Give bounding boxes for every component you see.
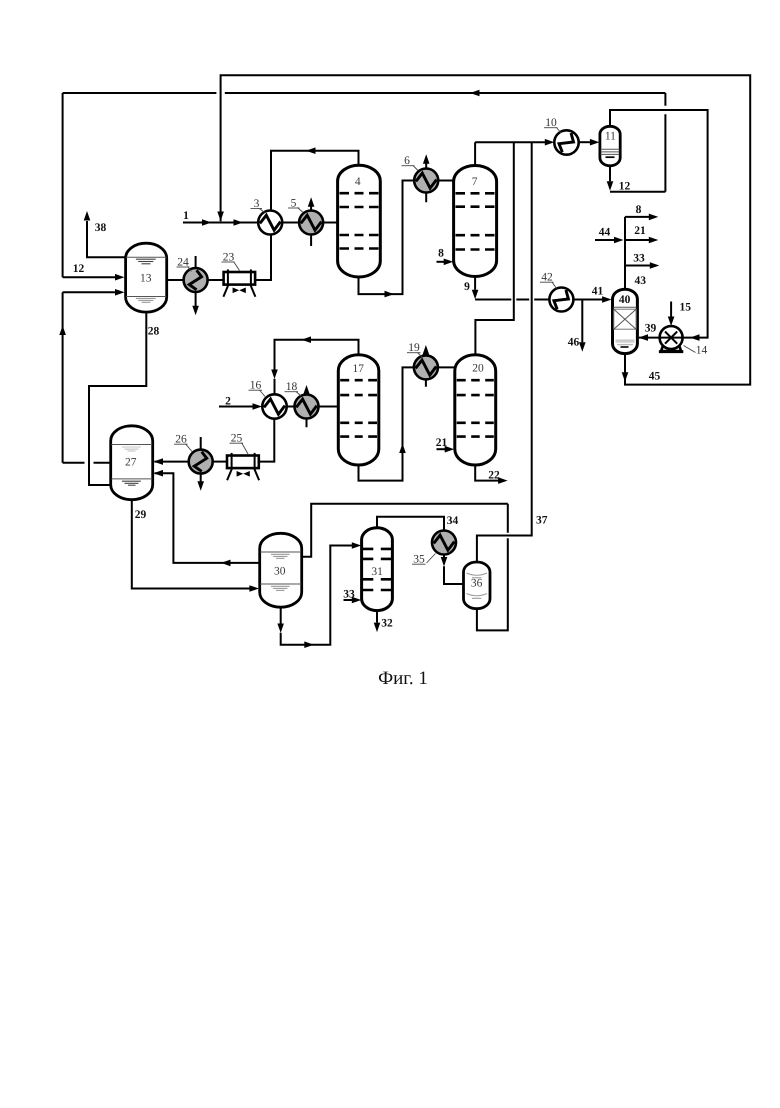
- pump 14: [659, 326, 683, 352]
- wire stream 28 vessel 13 bottom to vessel 27: [89, 312, 146, 485]
- svg-text:34: 34: [447, 515, 459, 527]
- wire HX18 to column 17: [319, 406, 339, 408]
- svg-text:4: 4: [355, 176, 361, 188]
- heat-exchanger HX6: [402, 154, 439, 202]
- wire column 4 bottoms to HX 6 riser: [359, 181, 415, 298]
- vessel 13 separator: [126, 243, 167, 312]
- svg-text:Фиг. 1: Фиг. 1: [378, 668, 428, 689]
- svg-text:30: 30: [274, 566, 286, 578]
- heat-exchanger HX24: [177, 256, 208, 315]
- wire HX 24 to vessel 13: [167, 279, 184, 281]
- wire stream 8 into column 7: [437, 259, 454, 266]
- svg-text:26: 26: [175, 434, 187, 446]
- svg-text:17: 17: [352, 363, 364, 375]
- svg-text:9: 9: [464, 281, 470, 293]
- svg-text:12: 12: [73, 263, 85, 275]
- wire stream 32 column 31 bottoms out: [374, 611, 381, 633]
- wire vessel 30 right loop to vessel 36 bottom: [302, 504, 508, 631]
- wire column 17 overhead recycle to HX16 top: [271, 336, 358, 394]
- svg-text:33: 33: [343, 589, 355, 601]
- svg-text:2: 2: [225, 396, 231, 408]
- svg-text:14: 14: [696, 345, 708, 357]
- svg-text:44: 44: [599, 227, 611, 239]
- svg-text:11: 11: [605, 130, 616, 142]
- wire stream 22 column 20 bottoms out: [475, 465, 507, 484]
- heat-exchanger HX19: [407, 342, 438, 387]
- wire HX26 to vessel 27: [154, 458, 189, 465]
- wire stream 43 vertical with side streams 8 21 33 44: [595, 214, 659, 290]
- svg-text:29: 29: [135, 509, 147, 521]
- wire HX16 bottom to air cooler 25: [259, 419, 274, 462]
- svg-text:33: 33: [633, 253, 645, 265]
- svg-text:16: 16: [250, 380, 262, 392]
- wire column 4 overhead recycle to HX 3: [271, 147, 359, 210]
- heat-exchanger HX18: [285, 381, 319, 427]
- wire stream 29 vessel 27 bottoms to vessel 30: [132, 500, 259, 592]
- wire HX 10 to vessel 11: [579, 139, 600, 146]
- svg-text:46: 46: [568, 337, 580, 349]
- svg-text:40: 40: [619, 294, 631, 306]
- svg-text:39: 39: [645, 323, 657, 335]
- heat-exchanger HX16: [249, 380, 287, 419]
- svg-text:19: 19: [408, 342, 420, 354]
- wire recycle 45 from column 40 bottom around top to stream 1 junction: [217, 75, 750, 384]
- wire air cooler 25 to HX26: [213, 461, 227, 463]
- wire HX 5 to column 4: [323, 222, 338, 224]
- svg-text:32: 32: [381, 618, 393, 630]
- svg-text:6: 6: [404, 155, 410, 167]
- wire HX 42 to vessel 40 stream 41: [573, 296, 611, 303]
- wire air cooler 23 to HX 24: [208, 279, 224, 281]
- wire stream 46 drop: [579, 300, 586, 352]
- wire HX19 to column 20: [438, 366, 455, 368]
- node stream 14 label with leader: [684, 345, 708, 357]
- heat-exchanger HX26: [174, 434, 213, 491]
- wire HX 3 bottom to air cooler 23: [255, 234, 271, 280]
- column 4: [338, 165, 381, 277]
- wire stream 21 into column 20: [437, 446, 455, 453]
- wire tee from overhead line down to column 20 top: [475, 142, 513, 355]
- vessel 11 reflux drum: [600, 126, 620, 166]
- wire stream 12 recycle from vessel 11 bottom to vessel 13: [63, 90, 666, 281]
- svg-text:25: 25: [231, 433, 243, 445]
- wire HX16 to HX18: [287, 406, 295, 408]
- vessel 30 separator: [260, 533, 302, 607]
- vessel 27 separator: [111, 426, 153, 500]
- svg-text:27: 27: [125, 457, 137, 469]
- vessel 36 drum: [464, 562, 491, 609]
- svg-text:20: 20: [472, 363, 484, 375]
- column 40 absorber: [613, 289, 638, 353]
- wire HX 6 to column 7: [438, 180, 453, 182]
- svg-text:8: 8: [636, 204, 642, 216]
- svg-text:22: 22: [488, 470, 500, 482]
- heat-exchanger HX42: [540, 272, 573, 312]
- wire pump 14 to vessel 40 stream 39: [639, 334, 660, 341]
- wire vessel 30 vapor to vessel 27: [154, 470, 260, 566]
- svg-text:15: 15: [680, 302, 692, 314]
- svg-text:10: 10: [545, 117, 557, 129]
- wire column 31 overhead stream 34 to HX34: [377, 517, 444, 531]
- svg-text:42: 42: [541, 272, 553, 284]
- svg-text:43: 43: [635, 275, 647, 287]
- wire stream 38 vapor out of vessel 13: [84, 211, 126, 257]
- heat-exchanger HX10: [544, 117, 579, 155]
- column 17: [338, 355, 379, 465]
- wire HX 3 to HX 5: [282, 222, 299, 224]
- heat-exchanger HX3: [251, 198, 283, 235]
- wire stream 15 into pump 14: [668, 302, 675, 327]
- wire HX34 bottom to vessel 36: [441, 555, 464, 585]
- wire column 17 bottoms riser to HX19: [359, 367, 414, 480]
- column 7: [454, 166, 497, 277]
- wire stream 2 feed into HX16: [219, 403, 262, 410]
- wire column 7 overhead to HX 10: [475, 139, 554, 166]
- svg-text:7: 7: [472, 176, 478, 188]
- svg-text:21: 21: [634, 225, 646, 237]
- svg-text:1: 1: [183, 210, 189, 222]
- heat-exchanger HX5: [288, 197, 323, 246]
- svg-text:13: 13: [140, 272, 152, 284]
- wire vessel 30 bottoms to column 31: [277, 542, 361, 648]
- wire vapor line vessel 27 to vessel 13: [59, 289, 124, 463]
- air-cooler 23: [222, 252, 256, 297]
- wire stream 1 feed line: [183, 219, 258, 226]
- svg-text:31: 31: [371, 566, 383, 578]
- svg-text:36: 36: [471, 577, 483, 589]
- svg-text:37: 37: [536, 515, 548, 527]
- svg-text:38: 38: [95, 222, 107, 234]
- svg-text:45: 45: [649, 371, 661, 383]
- svg-text:41: 41: [592, 286, 604, 298]
- svg-text:21: 21: [436, 437, 448, 449]
- svg-text:12: 12: [619, 181, 631, 193]
- column 20: [455, 355, 496, 465]
- wire stream 9 column 7 bottoms to HX 42: [472, 277, 550, 300]
- wire stream 33 into column 31: [344, 597, 362, 604]
- svg-text:35: 35: [413, 554, 425, 566]
- svg-text:28: 28: [148, 326, 160, 338]
- column 31 stabilizer: [362, 528, 393, 611]
- wire stream 37 vessel 36 top riser to overhead line: [477, 142, 532, 562]
- svg-text:8: 8: [438, 248, 444, 260]
- wire vessel 11 top to pump 14: [610, 110, 708, 341]
- heat-exchanger HX34: [412, 531, 456, 566]
- svg-text:18: 18: [286, 381, 298, 393]
- air-cooler 25: [227, 433, 259, 481]
